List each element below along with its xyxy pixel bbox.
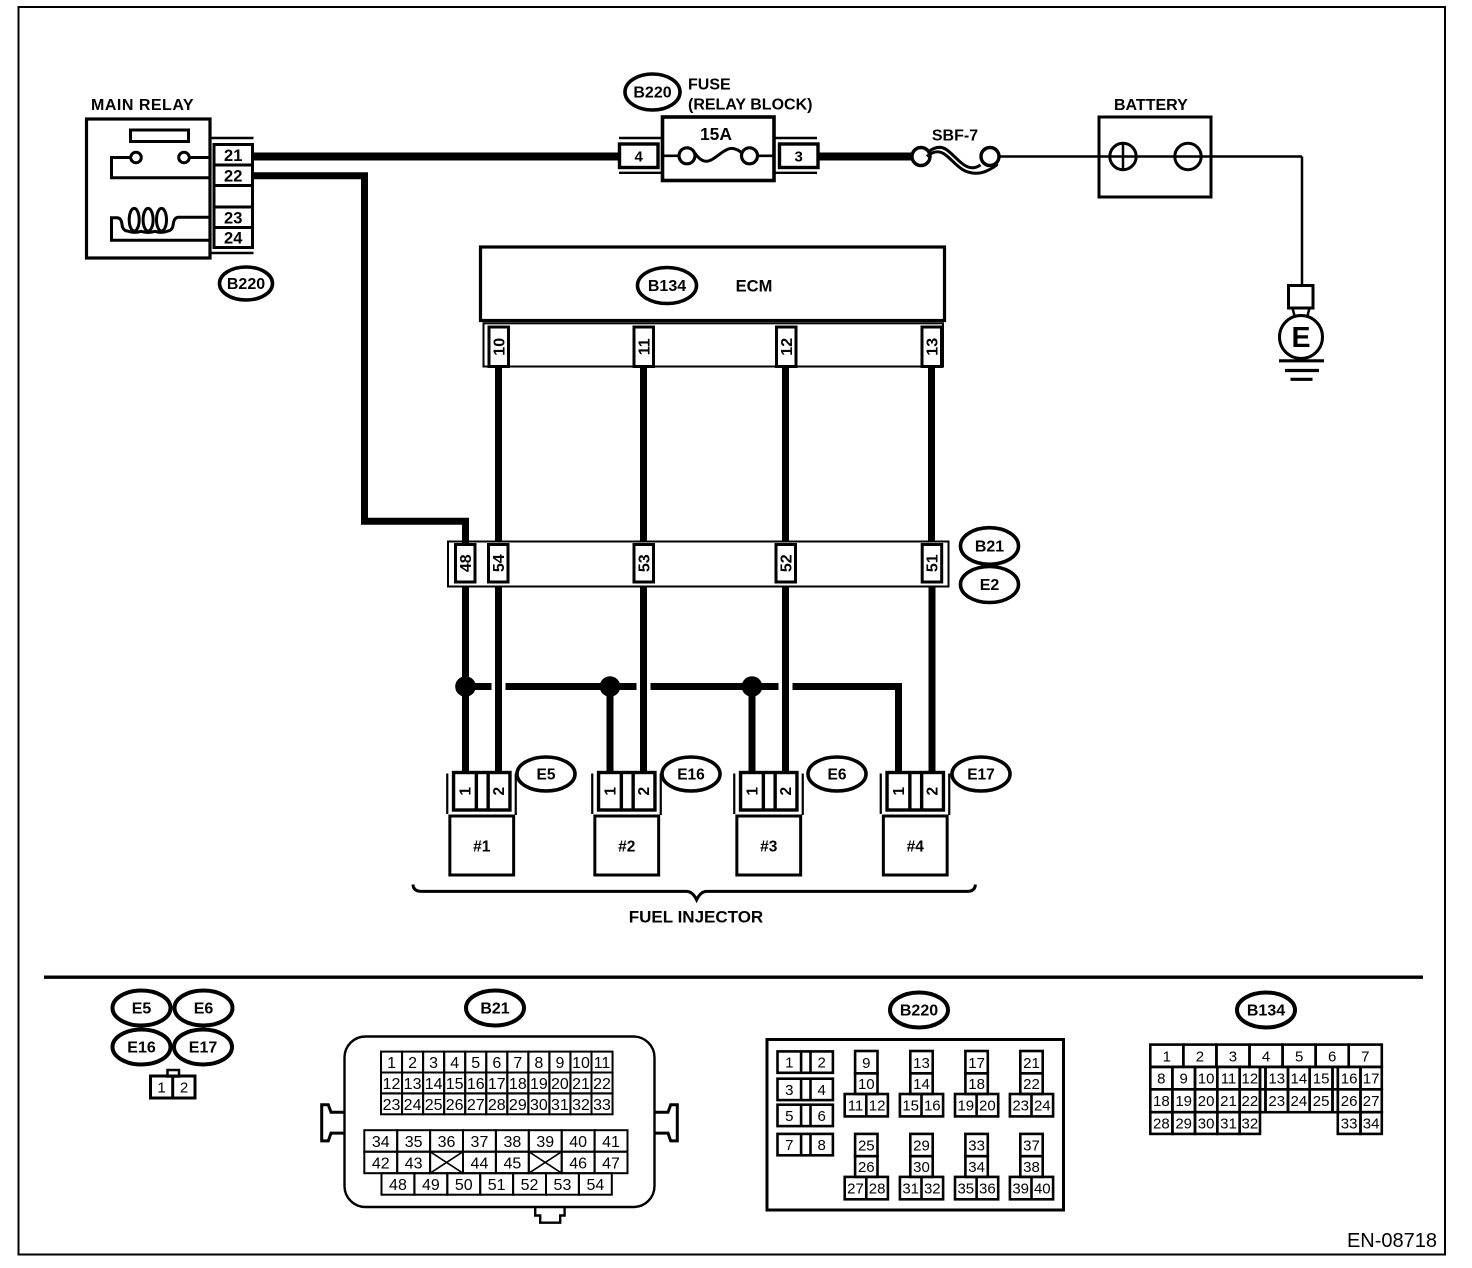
svg-text:36: 36	[438, 1134, 456, 1151]
svg-text:2: 2	[491, 787, 508, 796]
svg-text:B134: B134	[648, 278, 686, 295]
svg-text:10: 10	[491, 338, 508, 356]
svg-text:B134: B134	[1247, 1003, 1285, 1020]
svg-text:ECM: ECM	[736, 278, 773, 296]
svg-text:15: 15	[1313, 1071, 1330, 1088]
svg-text:FUEL INJECTOR: FUEL INJECTOR	[629, 908, 763, 927]
svg-text:(RELAY BLOCK): (RELAY BLOCK)	[688, 97, 812, 114]
svg-text:22: 22	[224, 167, 242, 185]
svg-text:39: 39	[536, 1134, 554, 1151]
svg-text:34: 34	[1363, 1115, 1380, 1132]
svg-text:17: 17	[488, 1076, 506, 1093]
svg-text:E17: E17	[189, 1040, 218, 1057]
svg-text:#3: #3	[760, 839, 778, 856]
svg-text:E17: E17	[967, 767, 995, 784]
svg-text:FUSE: FUSE	[688, 77, 731, 94]
svg-text:30: 30	[530, 1097, 548, 1114]
svg-text:19: 19	[957, 1098, 974, 1115]
svg-text:14: 14	[913, 1076, 930, 1093]
svg-text:5: 5	[471, 1055, 480, 1072]
svg-text:42: 42	[372, 1155, 390, 1172]
svg-text:B220: B220	[227, 276, 265, 293]
svg-text:#1: #1	[473, 839, 491, 856]
svg-text:15A: 15A	[700, 124, 732, 144]
svg-text:35: 35	[957, 1181, 974, 1198]
svg-text:23: 23	[1012, 1098, 1029, 1115]
svg-text:53: 53	[636, 554, 653, 572]
svg-text:1: 1	[744, 787, 761, 796]
svg-text:1: 1	[387, 1055, 396, 1072]
svg-text:2: 2	[636, 787, 653, 796]
svg-text:6: 6	[1328, 1048, 1336, 1065]
svg-text:1: 1	[157, 1080, 165, 1097]
svg-text:15: 15	[902, 1098, 919, 1115]
svg-text:29: 29	[1175, 1115, 1192, 1132]
svg-text:B21: B21	[480, 1001, 509, 1018]
svg-text:51: 51	[488, 1177, 506, 1194]
svg-text:4: 4	[1262, 1048, 1270, 1065]
svg-text:27: 27	[467, 1097, 485, 1114]
svg-text:31: 31	[902, 1181, 919, 1198]
svg-text:#4: #4	[907, 839, 925, 856]
svg-text:4: 4	[818, 1082, 826, 1099]
svg-text:19: 19	[1175, 1093, 1192, 1110]
svg-text:28: 28	[488, 1097, 506, 1114]
svg-text:23: 23	[1268, 1093, 1285, 1110]
svg-text:26: 26	[1341, 1093, 1358, 1110]
svg-text:33: 33	[968, 1138, 985, 1155]
svg-text:32: 32	[924, 1181, 941, 1198]
svg-text:E16: E16	[127, 1040, 156, 1057]
svg-text:27: 27	[847, 1181, 864, 1198]
svg-text:24: 24	[1291, 1093, 1308, 1110]
svg-text:2: 2	[408, 1055, 417, 1072]
svg-text:45: 45	[503, 1155, 521, 1172]
svg-text:13: 13	[1268, 1071, 1285, 1088]
svg-text:40: 40	[569, 1134, 587, 1151]
svg-text:12: 12	[869, 1098, 886, 1115]
svg-text:24: 24	[404, 1097, 422, 1114]
svg-text:47: 47	[602, 1155, 620, 1172]
svg-text:12: 12	[1242, 1071, 1259, 1088]
svg-text:E6: E6	[194, 1001, 214, 1018]
svg-text:13: 13	[913, 1055, 930, 1072]
svg-text:25: 25	[1313, 1093, 1330, 1110]
svg-text:22: 22	[593, 1076, 611, 1093]
svg-text:51: 51	[925, 554, 942, 572]
svg-text:1: 1	[457, 787, 474, 796]
svg-text:37: 37	[471, 1134, 489, 1151]
svg-text:16: 16	[924, 1098, 941, 1115]
svg-text:19: 19	[530, 1076, 548, 1093]
svg-text:33: 33	[593, 1097, 611, 1114]
svg-text:23: 23	[224, 209, 242, 227]
svg-text:3: 3	[785, 1082, 793, 1099]
svg-text:40: 40	[1034, 1181, 1051, 1198]
svg-text:BATTERY: BATTERY	[1114, 97, 1188, 114]
svg-text:52: 52	[778, 554, 795, 572]
svg-text:16: 16	[1341, 1071, 1358, 1088]
svg-text:E6: E6	[828, 767, 847, 784]
svg-text:18: 18	[1153, 1093, 1170, 1110]
svg-text:2: 2	[180, 1080, 188, 1097]
svg-text:38: 38	[1023, 1159, 1040, 1176]
svg-text:E5: E5	[132, 1001, 152, 1018]
svg-text:48: 48	[458, 554, 475, 572]
svg-text:29: 29	[509, 1097, 527, 1114]
svg-text:36: 36	[979, 1181, 996, 1198]
svg-text:12: 12	[383, 1076, 401, 1093]
svg-text:5: 5	[1295, 1048, 1303, 1065]
svg-text:54: 54	[491, 554, 508, 572]
svg-text:3: 3	[795, 149, 803, 166]
svg-text:SBF-7: SBF-7	[932, 128, 978, 145]
svg-text:41: 41	[602, 1134, 620, 1151]
svg-text:31: 31	[1220, 1115, 1237, 1132]
svg-text:11: 11	[636, 338, 653, 355]
svg-text:49: 49	[422, 1177, 440, 1194]
svg-text:7: 7	[785, 1137, 793, 1154]
svg-text:2: 2	[1196, 1048, 1204, 1065]
svg-text:14: 14	[1291, 1071, 1308, 1088]
svg-text:9: 9	[555, 1055, 564, 1072]
svg-text:24: 24	[1034, 1098, 1051, 1115]
svg-text:21: 21	[572, 1076, 590, 1093]
svg-text:1: 1	[891, 787, 908, 796]
svg-text:E2: E2	[980, 577, 1000, 594]
svg-text:17: 17	[1363, 1071, 1380, 1088]
svg-text:13: 13	[404, 1076, 422, 1093]
svg-text:9: 9	[862, 1055, 870, 1072]
svg-text:21: 21	[224, 147, 242, 165]
svg-text:5: 5	[785, 1108, 793, 1125]
svg-text:32: 32	[572, 1097, 590, 1114]
svg-text:11: 11	[1221, 1071, 1237, 1088]
svg-text:2: 2	[925, 787, 942, 796]
svg-text:33: 33	[1341, 1115, 1358, 1132]
svg-text:6: 6	[818, 1108, 826, 1125]
svg-text:30: 30	[1198, 1115, 1215, 1132]
svg-text:37: 37	[1023, 1138, 1040, 1155]
svg-text:3: 3	[429, 1055, 438, 1072]
svg-text:52: 52	[521, 1177, 539, 1194]
svg-text:10: 10	[858, 1076, 875, 1093]
svg-text:12: 12	[779, 338, 796, 356]
svg-text:23: 23	[383, 1097, 401, 1114]
svg-text:22: 22	[1242, 1093, 1259, 1110]
svg-text:31: 31	[551, 1097, 569, 1114]
svg-text:43: 43	[405, 1155, 423, 1172]
svg-text:1: 1	[785, 1055, 793, 1072]
svg-text:2: 2	[778, 787, 795, 796]
svg-text:32: 32	[1242, 1115, 1259, 1132]
svg-text:E16: E16	[677, 767, 705, 784]
svg-text:25: 25	[858, 1138, 875, 1155]
svg-text:18: 18	[509, 1076, 527, 1093]
svg-text:20: 20	[979, 1098, 996, 1115]
svg-text:34: 34	[968, 1159, 985, 1176]
svg-text:3: 3	[1229, 1048, 1237, 1065]
svg-text:38: 38	[503, 1134, 521, 1151]
svg-text:E: E	[1291, 322, 1310, 354]
svg-text:27: 27	[1363, 1093, 1380, 1110]
svg-text:26: 26	[446, 1097, 464, 1114]
svg-text:1: 1	[602, 787, 619, 796]
svg-text:22: 22	[1023, 1076, 1040, 1093]
svg-text:13: 13	[924, 338, 941, 356]
svg-text:B220: B220	[633, 85, 671, 102]
svg-text:21: 21	[1023, 1055, 1040, 1072]
svg-text:53: 53	[554, 1177, 572, 1194]
svg-text:16: 16	[467, 1076, 485, 1093]
svg-text:B21: B21	[975, 539, 1004, 556]
svg-text:28: 28	[869, 1181, 886, 1198]
svg-text:46: 46	[569, 1155, 587, 1172]
svg-text:54: 54	[586, 1177, 604, 1194]
svg-text:EN-08718: EN-08718	[1347, 1230, 1437, 1252]
svg-text:1: 1	[1163, 1048, 1171, 1065]
svg-text:26: 26	[858, 1159, 875, 1176]
svg-text:B220: B220	[900, 1003, 938, 1020]
svg-text:50: 50	[455, 1177, 473, 1194]
svg-text:24: 24	[224, 230, 243, 248]
svg-text:29: 29	[913, 1138, 930, 1155]
svg-text:7: 7	[1361, 1048, 1369, 1065]
svg-text:11: 11	[848, 1098, 864, 1115]
svg-text:10: 10	[572, 1055, 590, 1072]
svg-text:18: 18	[968, 1076, 985, 1093]
svg-text:8: 8	[534, 1055, 543, 1072]
svg-text:9: 9	[1180, 1071, 1188, 1088]
svg-text:21: 21	[1220, 1093, 1237, 1110]
svg-text:20: 20	[1198, 1093, 1215, 1110]
svg-text:4: 4	[635, 149, 644, 166]
svg-text:4: 4	[450, 1055, 459, 1072]
svg-text:8: 8	[818, 1137, 826, 1154]
svg-text:MAIN RELAY: MAIN RELAY	[91, 97, 194, 114]
svg-text:11: 11	[594, 1055, 611, 1072]
svg-text:39: 39	[1012, 1181, 1029, 1198]
svg-text:30: 30	[913, 1159, 930, 1176]
svg-text:2: 2	[818, 1055, 826, 1072]
svg-text:6: 6	[492, 1055, 501, 1072]
svg-text:34: 34	[372, 1134, 390, 1151]
svg-text:28: 28	[1153, 1115, 1170, 1132]
svg-text:35: 35	[405, 1134, 423, 1151]
svg-text:17: 17	[968, 1055, 985, 1072]
svg-text:20: 20	[551, 1076, 569, 1093]
svg-text:7: 7	[513, 1055, 522, 1072]
svg-text:15: 15	[446, 1076, 464, 1093]
svg-text:8: 8	[1157, 1071, 1165, 1088]
svg-text:#2: #2	[618, 839, 635, 856]
svg-text:14: 14	[425, 1076, 443, 1093]
svg-text:25: 25	[425, 1097, 443, 1114]
svg-text:10: 10	[1198, 1071, 1215, 1088]
svg-text:E5: E5	[537, 767, 556, 784]
svg-text:44: 44	[471, 1155, 489, 1172]
svg-text:48: 48	[389, 1177, 407, 1194]
